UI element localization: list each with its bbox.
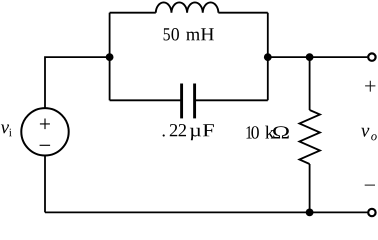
resistor R1 10 kOhm zigzag [299,110,320,164]
node dot: right LC junction [264,53,272,61]
terminal: output bottom (open circle) [368,209,375,216]
wire: source top to left junction (y=57) [45,57,110,109]
output plus sign [365,81,375,92]
label: vo [361,128,377,141]
terminal: output top (open circle) [368,53,375,60]
wire: bottom rail [45,211,368,213]
source plus sign [40,119,50,130]
source minus sign [40,144,51,146]
inductor L1 50 mH [156,2,219,12]
wire: resistor bottom lead [309,164,311,212]
node dot: resistor bottom junction [306,209,314,217]
wire: capacitor branch left [110,99,182,101]
node dot: resistor top junction [306,53,314,61]
voltage source U1 circle [21,108,68,155]
node dot: left LC junction [106,53,114,61]
capacitor C1 left plate [180,84,183,119]
label: vi [1,124,12,136]
wire: right vertical of LC loop [267,13,269,101]
wire: top segment left of inductor [110,12,156,14]
wire: top segment right of inductor [218,12,267,14]
wire: source bottom lead [44,155,46,213]
wire: main top right (to output terminal) [268,56,368,58]
capacitor C1 right plate [193,84,196,119]
wire: resistor top lead [309,57,311,110]
wire: left vertical of LC loop [109,13,111,101]
label: 50 mH [164,28,214,40]
output minus sign [365,184,375,186]
label: .22 uF [163,124,214,140]
label: 10 kOhm [247,126,289,139]
wire: capacitor branch right [195,99,268,101]
